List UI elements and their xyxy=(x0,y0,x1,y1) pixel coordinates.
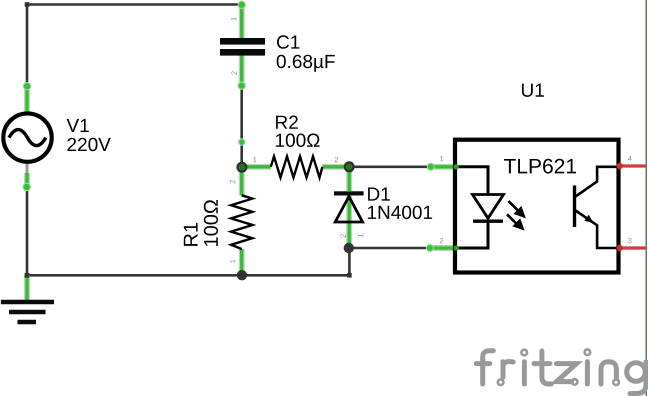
node ground junction xyxy=(25,273,30,278)
node A junction xyxy=(238,163,247,172)
wire left vertical lower xyxy=(26,188,29,275)
wire C1 to node A xyxy=(240,86,243,167)
endpoint opto pin2 xyxy=(426,244,434,252)
node corner top-left xyxy=(25,2,30,7)
U1 pin 3 number xyxy=(628,238,632,243)
D1 pin 2 number xyxy=(341,234,346,237)
resistor R1 xyxy=(231,195,252,249)
value 0.68uF xyxy=(277,55,335,72)
wire optocoupler pin2 green xyxy=(430,245,457,251)
node C junction xyxy=(344,243,354,253)
wire R2 pin2 green xyxy=(322,164,349,170)
R2 pin 2 number xyxy=(335,157,338,162)
value 100 ohm xyxy=(276,134,320,148)
label V1 xyxy=(67,119,89,132)
wire left vertical upper xyxy=(26,5,29,88)
U1 pin 4 number xyxy=(628,156,632,161)
resistor R2 xyxy=(271,156,323,177)
wire V1 pin top green xyxy=(24,86,30,113)
endpoint C1 bottom xyxy=(238,82,246,90)
ground xyxy=(1,302,54,322)
label U1 xyxy=(522,84,544,97)
U1 phototransistor xyxy=(575,167,619,248)
voltage source V1 xyxy=(3,113,51,161)
optocoupler U1 box xyxy=(455,140,619,273)
capacitor C1 xyxy=(220,38,265,56)
R1 pin 1 number xyxy=(230,260,235,263)
label D1 xyxy=(368,188,390,201)
node corner D1 bottom xyxy=(347,273,352,278)
wire optocoupler pin1 green xyxy=(431,164,457,170)
U1 pin 1 number xyxy=(440,156,443,161)
wire U1 pin3 red xyxy=(619,246,647,249)
wire V1 pin bottom green xyxy=(24,173,30,189)
label R1 rotated xyxy=(184,223,198,246)
endpoint V1 bottom xyxy=(23,183,31,191)
fritzing watermark xyxy=(476,349,646,393)
wire R1 top pin green xyxy=(239,167,245,196)
wire node B to optocoupler pin1 xyxy=(349,166,431,169)
wire C1 pin1 green xyxy=(239,5,245,39)
U1 pin 2 number xyxy=(440,238,443,243)
diode D1 xyxy=(334,191,364,243)
R1 pin 2 number xyxy=(230,180,235,183)
sheet boundary line xyxy=(645,0,647,396)
endpoint opto pin1 xyxy=(427,163,435,171)
C1 pin 2 number xyxy=(231,71,236,74)
wire U1 pin4 red xyxy=(619,164,647,167)
wire C1 pin2 green xyxy=(239,56,245,87)
wire bottom horizontal xyxy=(27,274,349,277)
label C1 xyxy=(277,35,299,49)
wire ground pin green xyxy=(24,275,30,301)
pin dot U1 pin2 xyxy=(454,245,459,250)
wire node C to optocoupler pin2 xyxy=(349,247,431,250)
wire D1 top pin green xyxy=(346,167,352,191)
pin dot U1 pin1 xyxy=(454,164,459,169)
U1 pin4 endpoint xyxy=(617,163,623,169)
U1 LED xyxy=(473,195,504,222)
V1 pin bottom gray stub xyxy=(26,163,29,174)
value 220V xyxy=(68,138,111,152)
U1 internal LED wiring xyxy=(455,167,488,248)
wire top horizontal xyxy=(27,3,242,6)
C1 pin 1 number xyxy=(231,17,236,20)
endpoint C1 top xyxy=(238,1,246,9)
node B junction xyxy=(345,163,354,172)
U1 pin3 endpoint xyxy=(617,245,623,251)
U1 light arrows xyxy=(507,201,524,229)
bendpoint mid wire green xyxy=(238,138,245,145)
wire R1 bottom pin green xyxy=(239,249,245,275)
wire D1 branch down xyxy=(348,248,351,275)
wire R2 pin1 green xyxy=(242,164,271,170)
node R1 bottom junction xyxy=(237,270,247,280)
D1 pin 1 number xyxy=(358,234,363,237)
value 1N4001 xyxy=(368,206,432,220)
R2 pin 1 number xyxy=(253,157,256,162)
label R2 xyxy=(276,116,298,129)
value 100 ohm rotated xyxy=(204,200,218,246)
endpoint V1 top xyxy=(23,82,31,90)
label TLP621 xyxy=(504,159,576,174)
